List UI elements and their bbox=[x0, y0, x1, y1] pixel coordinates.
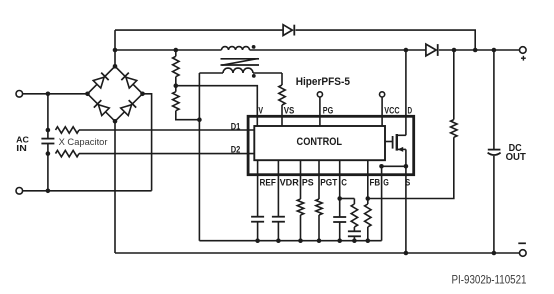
wire main bus left bbox=[115, 49, 222, 51]
wire output cap top bbox=[493, 50, 495, 150]
wire PGT pin bbox=[318, 160, 320, 199]
pin label D bbox=[408, 105, 413, 115]
wire PS pin bbox=[300, 160, 302, 199]
capacitor C-C1 bbox=[333, 217, 346, 222]
test point VCC circle bbox=[380, 92, 385, 97]
node junction FB/bus bbox=[366, 238, 371, 243]
svg-text:CONTROL: CONTROL bbox=[297, 136, 343, 148]
wire C-REF to bus bbox=[257, 222, 259, 241]
svg-text:X Capacitor: X Capacitor bbox=[59, 137, 108, 148]
wire main bus middle bbox=[250, 49, 426, 51]
resistor R5 (VS) bbox=[279, 85, 285, 105]
pin label VS bbox=[284, 105, 295, 115]
wire PG pin bbox=[319, 97, 321, 126]
wire D pin (drain to bus) bbox=[405, 50, 407, 135]
node junction R2 tap bbox=[46, 151, 51, 156]
resistor R1 (line sense to D1) bbox=[56, 127, 80, 133]
wire G pin bbox=[381, 166, 383, 240]
node junction PS/bus bbox=[298, 238, 303, 243]
transistor Q1 channel bar bbox=[396, 134, 398, 151]
wire bridge top vertex to bus bbox=[114, 30, 116, 66]
node junction C/bus bbox=[337, 238, 342, 243]
resistor R-PS bbox=[297, 199, 303, 215]
wire output cap bottom bbox=[493, 156, 495, 253]
note PI-9302b-110521 bbox=[452, 273, 527, 286]
diode BR1-D4 (bottom-right) bbox=[121, 100, 136, 115]
pin label PG bbox=[323, 105, 333, 115]
node junction divider top bbox=[174, 48, 179, 53]
svg-text:FB: FB bbox=[370, 177, 381, 187]
node junction divider/aux return bbox=[197, 117, 202, 122]
wire internal G-S link bbox=[382, 165, 406, 167]
wire main bus right bbox=[439, 49, 520, 51]
wire FB pin bbox=[367, 160, 369, 204]
svg-text:OUT: OUT bbox=[506, 152, 526, 163]
resistor R-PGT bbox=[316, 199, 322, 215]
resistor R2 (line sense to D2) bbox=[56, 150, 80, 156]
wire AC top line bbox=[22, 93, 88, 95]
wire divider top lead bbox=[175, 50, 177, 56]
node junction comp/bus bbox=[352, 238, 357, 243]
wire signal ground bus bbox=[199, 240, 381, 242]
inductor L1 main winding bbox=[222, 47, 250, 50]
node junction S internal bbox=[404, 164, 409, 169]
wire C-C2 to bus bbox=[353, 236, 355, 240]
bridge rectifier BR1 diamond wires bbox=[88, 66, 143, 121]
phase dot L1 aux bbox=[252, 74, 256, 78]
node junction G internal bbox=[379, 164, 384, 169]
wire bridge bottom to ground rail bbox=[114, 121, 116, 253]
controller block CONTROL box bbox=[254, 126, 385, 160]
label - minus bbox=[518, 242, 526, 244]
wire REF pin bbox=[257, 160, 259, 217]
node bridge left vertex bbox=[85, 92, 90, 97]
label HiperPFS-5 bbox=[296, 76, 350, 88]
label + plus bbox=[521, 56, 526, 61]
svg-text:PS: PS bbox=[302, 177, 314, 187]
DC output + terminal bbox=[520, 47, 527, 54]
resistor R-C (comp) bbox=[351, 204, 357, 227]
wire S pin bbox=[405, 166, 407, 253]
svg-text:REF: REF bbox=[260, 177, 277, 187]
node junction C pin bbox=[337, 196, 342, 201]
pin label V bbox=[258, 105, 263, 115]
capacitor C-OUT (bulk) bbox=[488, 150, 501, 155]
node bridge bottom vertex bbox=[113, 119, 118, 124]
transistor Q1 source lead bbox=[397, 147, 406, 152]
wire VCC pin bbox=[381, 97, 383, 126]
svg-text:VS: VS bbox=[284, 105, 295, 115]
pin label G bbox=[383, 177, 389, 187]
wire R5 to VS pin bbox=[281, 105, 283, 126]
node junction output cap bbox=[492, 48, 497, 53]
wire R-C to C-C2 bbox=[353, 227, 355, 231]
capacitor C-C2 (comp) bbox=[348, 231, 361, 236]
wire R1 to D1 pin bbox=[79, 129, 254, 131]
wire R6 to bus bbox=[453, 50, 455, 120]
label AC IN bbox=[16, 134, 29, 153]
resistor R-FB (divider lower) bbox=[365, 204, 371, 227]
wire R-PGT to bus bbox=[318, 215, 320, 241]
wire C-VDR to bus bbox=[277, 222, 279, 241]
svg-text:C: C bbox=[341, 177, 347, 187]
svg-text:PI-9302b-110521: PI-9302b-110521 bbox=[452, 273, 527, 286]
label DC OUT bbox=[506, 143, 526, 163]
transistor Q1 gate lead bbox=[385, 141, 392, 143]
wire aux winding right lead bbox=[253, 72, 282, 74]
node junction bus/bypass riser bbox=[113, 48, 118, 53]
pin label D1 bbox=[231, 121, 241, 131]
capacitor C-REF bbox=[251, 217, 264, 222]
node junction R1 tap bbox=[46, 128, 51, 133]
IC U1 package outline bbox=[248, 116, 414, 174]
node junction D pin bbox=[404, 48, 409, 53]
pin label S bbox=[405, 177, 410, 187]
wire aux winding left lead bbox=[199, 72, 223, 74]
svg-text:D2: D2 bbox=[231, 144, 241, 154]
svg-text:HiperPFS-5: HiperPFS-5 bbox=[296, 76, 350, 88]
wire X-cap vertical lower bbox=[47, 144, 49, 191]
label CONTROL bbox=[297, 136, 343, 148]
resistor R6 (FB divider upper) bbox=[451, 120, 457, 138]
wire bridge right vertex to bottom AC bbox=[143, 94, 152, 191]
wire VDR pin bbox=[277, 160, 279, 217]
wire R-PS to bus bbox=[300, 215, 302, 241]
inductor L1 aux winding bbox=[223, 68, 253, 73]
svg-text:G: G bbox=[383, 177, 389, 187]
AC input terminal J2 (neutral) bbox=[16, 188, 23, 195]
capacitor C-VDR bbox=[272, 217, 285, 222]
svg-text:IN: IN bbox=[16, 143, 27, 153]
wire R-FB to bus bbox=[367, 227, 369, 241]
svg-text:V: V bbox=[258, 105, 263, 115]
node junction S/ground rail bbox=[404, 251, 409, 256]
transistor Q1 drain lead bbox=[397, 134, 406, 136]
wire C pin bbox=[339, 160, 341, 217]
svg-text:PGT: PGT bbox=[320, 177, 337, 187]
wire C node to R-C bbox=[340, 198, 355, 200]
label X Capacitor bbox=[59, 137, 108, 148]
resistor R3 (V divider upper) bbox=[173, 56, 179, 76]
wire C-C1 to bus bbox=[339, 222, 341, 241]
node junction output divider bbox=[452, 48, 457, 53]
node junction Cout/ground rail bbox=[492, 251, 497, 256]
node junction PGT/bus bbox=[317, 238, 322, 243]
pin label D2 bbox=[231, 144, 241, 154]
wire divider bottom lead bbox=[176, 111, 200, 120]
svg-text:D1: D1 bbox=[231, 121, 241, 131]
node junction VDR/bus bbox=[276, 238, 281, 243]
test point PG circle bbox=[317, 92, 322, 97]
resistor R4 (V divider lower) bbox=[173, 92, 179, 111]
node junction V node bbox=[174, 83, 179, 88]
node bridge top vertex bbox=[113, 64, 118, 69]
capacitor CX (X capacitor) bbox=[41, 139, 54, 144]
AC input terminal J1 (line) bbox=[16, 91, 23, 98]
wire FB node to output divider bbox=[368, 137, 454, 198]
DC output - terminal bbox=[520, 250, 527, 257]
wire divider mid lead bbox=[175, 77, 177, 92]
wire top bypass left segment bbox=[115, 29, 283, 31]
wire R2 to D2 pin bbox=[79, 153, 254, 155]
wire V node to V pin bbox=[176, 86, 257, 126]
wire R-C top lead bbox=[353, 199, 355, 205]
wire aux return vertical bbox=[198, 73, 200, 241]
diode D1 (bypass) bbox=[283, 25, 294, 36]
wire aux to R5 bbox=[281, 73, 283, 85]
diode BR1-D2 (top-right) bbox=[121, 73, 136, 88]
core L1 bbox=[221, 59, 260, 66]
svg-text:VDR: VDR bbox=[280, 177, 300, 187]
pin label PGT bbox=[320, 177, 337, 187]
svg-text:PG: PG bbox=[323, 105, 333, 115]
node bridge right vertex bbox=[140, 92, 145, 97]
node junction FB node bbox=[366, 196, 371, 201]
pin label C bbox=[341, 177, 347, 187]
wire AC bottom line bbox=[22, 190, 151, 192]
diode D2 (boost output) bbox=[426, 44, 438, 56]
pin label VCC bbox=[384, 105, 400, 115]
diode BR1-D3 (bottom-left) bbox=[94, 100, 109, 115]
transistor Q1 gate bar bbox=[392, 136, 394, 149]
svg-text:VCC: VCC bbox=[384, 105, 400, 115]
node junction REF/bus bbox=[255, 238, 260, 243]
pin label PS bbox=[302, 177, 314, 187]
wire top bypass right segment bbox=[296, 30, 476, 50]
phase dot L1 main bbox=[252, 45, 256, 49]
node junction top AC / X-cap bbox=[46, 92, 51, 97]
pin label FB bbox=[370, 177, 381, 187]
svg-text:D: D bbox=[408, 105, 413, 115]
pin label VDR bbox=[280, 177, 300, 187]
pin label REF bbox=[260, 177, 277, 187]
wire main ground rail bbox=[115, 252, 520, 254]
wire Q1 source down bbox=[405, 149, 407, 166]
node junction bypass return bbox=[473, 48, 478, 53]
node junction bottom AC / X-cap bbox=[46, 189, 51, 194]
diode BR1-D1 (top-left) bbox=[93, 73, 108, 88]
wire X-cap vertical upper bbox=[47, 94, 49, 139]
